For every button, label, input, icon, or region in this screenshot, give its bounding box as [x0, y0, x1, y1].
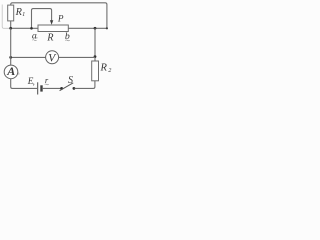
switch S left contact: [60, 87, 63, 90]
svg-text:A: A: [6, 64, 15, 78]
node: corner at right: [106, 27, 108, 29]
svg-text:P: P: [57, 14, 64, 24]
squiggle under b: [65, 39, 69, 42]
squiggle under r: [45, 83, 49, 86]
wire: voltmeter branch right segment: [59, 56, 95, 58]
voltmeter U-V: [46, 51, 59, 64]
ammeter A: [4, 65, 18, 79]
wire: switch to bottom-right corner up to R2: [75, 81, 95, 89]
node: junction above R2 on b-wire: [94, 27, 97, 30]
stray mark right of ammeter: [18, 73, 20, 75]
wire: node down to ammeter: [10, 28, 12, 65]
wire: slider bypass from a-wire up and over to slider P: [32, 9, 52, 29]
wire: battery to switch: [43, 87, 61, 89]
wire: ammeter bottom to bottom-left corner then right to battery: [11, 79, 37, 89]
switch S right contact: [73, 87, 76, 90]
svg-text:r: r: [45, 75, 49, 85]
resistor R2: [92, 61, 99, 81]
svg-text:1: 1: [22, 11, 25, 18]
resistor R1: [8, 5, 14, 21]
svg-text:,: ,: [33, 77, 35, 86]
wire: rheostat b to right vertical: [68, 27, 107, 29]
battery E long plate: [37, 82, 39, 94]
node: junction below R1: [9, 27, 12, 30]
node: junction of voltmeter branch at R2 top: [94, 55, 97, 58]
wire: top loop from R1 top to right side down to b-node: [11, 3, 107, 29]
squiggle under a: [32, 39, 36, 42]
rheostat R box: [38, 25, 68, 32]
svg-text:R: R: [46, 32, 54, 43]
wire: voltmeter branch left segment: [11, 56, 46, 58]
wire: node to rheostat terminal a: [11, 27, 38, 29]
svg-text:2: 2: [108, 67, 111, 74]
wire: faint shorting wire left of R1: [2, 5, 11, 29]
node: junction above ammeter: [9, 56, 12, 59]
switch S lever: [60, 83, 74, 91]
wire: drop from b-wire down to R2: [94, 28, 96, 61]
slider arrowhead P: [50, 20, 53, 25]
battery E short thick plate: [40, 85, 42, 91]
node: junction of bypass on a-wire: [30, 27, 33, 30]
svg-text:S: S: [68, 75, 73, 86]
wire: R1 bottom to node: [10, 21, 12, 28]
svg-text:R: R: [100, 62, 108, 73]
